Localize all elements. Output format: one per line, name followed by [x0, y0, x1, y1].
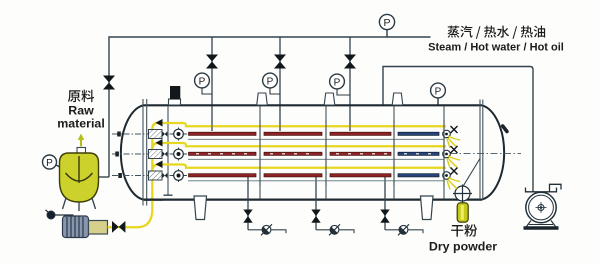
- support plate 1: [259, 106, 261, 199]
- vacuum pump: [524, 184, 562, 228]
- heater tube blue segment: [398, 152, 439, 155]
- vessel body: [60, 153, 99, 202]
- pressure gauge P5: [431, 83, 446, 105]
- valve V4: [344, 55, 356, 69]
- agitator shaft: [78, 156, 80, 183]
- valve V1 (header left drop): [103, 76, 115, 90]
- dryer shell top: [143, 104, 482, 106]
- discharge chute diagonal: [462, 159, 480, 189]
- head flange dot: [118, 173, 122, 178]
- support chute right: [421, 196, 434, 220]
- left end flange: [142, 99, 144, 206]
- top nozzle N1: [257, 93, 268, 105]
- rotary joint: [171, 133, 186, 135]
- discharge outlet circle: [453, 185, 472, 204]
- feed valve (black): [112, 221, 125, 233]
- valve V2: [206, 55, 218, 69]
- svg-text:Steam / Hot water / Hot oil: Steam / Hot water / Hot oil: [428, 42, 564, 54]
- steam drop line 2: [279, 37, 281, 131]
- shell bottom over feed pipe: [144, 199, 163, 201]
- bottom drain 1: [243, 176, 286, 235]
- pump casing: [526, 192, 556, 222]
- svg-text:P: P: [46, 158, 53, 169]
- right joint: [443, 150, 451, 158]
- vessel neck: [77, 148, 86, 156]
- pressure gauge P1 (header): [379, 14, 394, 37]
- pressure gauge P2: [195, 73, 212, 94]
- pressure gauge P4: [330, 74, 350, 95]
- label: dry powder chinese: [451, 224, 477, 237]
- svg-text:P: P: [334, 78, 341, 89]
- head flange dot: [117, 132, 121, 137]
- pump base: [524, 226, 559, 230]
- dryer left head: [121, 105, 143, 199]
- wire overlays (lines crossing over yellow pipes): [212, 120, 444, 186]
- right tube sheet: [443, 106, 445, 199]
- row 3: [112, 168, 460, 190]
- spray jets: [447, 156, 460, 168]
- right joint: [443, 172, 451, 180]
- bottom drain 3: [380, 176, 423, 235]
- charge nozzle (black): [169, 99, 181, 105]
- support plate 3: [393, 106, 395, 199]
- label: steam chinese: [447, 26, 545, 39]
- agitator arc: [66, 173, 93, 181]
- pressure gauge P6 (raw vessel): [43, 155, 61, 169]
- steam drop line 1: [211, 37, 213, 131]
- top nozzle N3: [392, 93, 403, 105]
- valve V3: [274, 55, 286, 69]
- steam header pipe: [109, 37, 431, 177]
- vacuum line: [383, 67, 533, 193]
- right head flange (black): [500, 123, 509, 133]
- internal verticals: [143, 99, 483, 206]
- gland: [149, 171, 163, 180]
- wire header to raw vessel: [98, 176, 109, 178]
- feed arrow: [80, 139, 82, 147]
- top nozzle N2: [324, 93, 335, 105]
- row 1: [112, 126, 460, 148]
- gland: [149, 150, 163, 159]
- row 2: [112, 146, 460, 168]
- dryer shell bottom: [143, 199, 482, 201]
- shaft line: [188, 138, 444, 140]
- raw material vessel: [60, 134, 99, 212]
- head flange dot: [115, 152, 119, 157]
- feed pump motor: [63, 216, 89, 238]
- support chute left: [194, 196, 207, 220]
- heater tube red segments: [189, 174, 392, 177]
- rotary joint: [171, 153, 186, 155]
- feed pump body: [89, 221, 108, 235]
- svg-text:Raw: Raw: [68, 104, 94, 118]
- yellow feed branch row2: [152, 143, 446, 150]
- svg-text:P: P: [435, 87, 442, 98]
- flow arrows on feed elbows: [156, 119, 163, 168]
- shaft line: [188, 180, 444, 182]
- label: raw material chinese: [68, 90, 94, 103]
- shaft line: [188, 158, 444, 160]
- pump discharge pipe: [550, 184, 562, 191]
- pressure gauge P3: [263, 73, 280, 94]
- yellow feed pipe: [108, 123, 447, 227]
- right end flange: [479, 100, 481, 200]
- dry powder canister: [457, 203, 468, 222]
- steam drop line 3: [349, 37, 351, 131]
- spray X: [451, 146, 458, 153]
- raw vessel drain: [46, 210, 74, 219]
- svg-text:Dry powder: Dry powder: [429, 240, 497, 254]
- heater tube red segments: [189, 152, 392, 155]
- heater tube red segments: [189, 132, 392, 135]
- pump legs: [527, 221, 532, 227]
- gland: [149, 130, 163, 139]
- centreline: [112, 175, 188, 177]
- legs: [63, 198, 67, 209]
- dryer right head: [482, 105, 504, 199]
- heater tube blue segment: [398, 174, 439, 177]
- support plate 2: [325, 106, 327, 199]
- svg-text:P: P: [383, 17, 390, 29]
- centreline: [112, 133, 188, 135]
- bottom drain 2: [311, 176, 354, 235]
- vessel centre axis dash-dot: [450, 153, 521, 155]
- centreline: [112, 153, 188, 155]
- spray jets: [447, 178, 460, 190]
- spray jets: [447, 136, 460, 148]
- pump top plate: [526, 188, 557, 192]
- rotary joint: [171, 175, 186, 177]
- svg-text:P: P: [267, 77, 274, 88]
- heater tube blue segment: [398, 132, 439, 135]
- svg-text:P: P: [199, 77, 206, 88]
- svg-text:material: material: [57, 117, 105, 131]
- spray X: [451, 126, 458, 133]
- yellow feed branch row3: [152, 165, 446, 172]
- spray X: [451, 168, 458, 175]
- left tube sheet: [167, 106, 169, 195]
- right joint: [443, 130, 451, 138]
